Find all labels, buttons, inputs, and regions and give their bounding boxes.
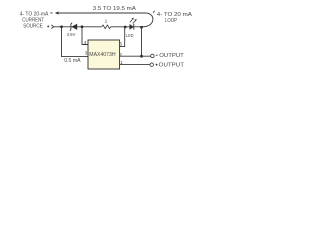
svg-text:OUTPUT: OUTPUT [159,53,184,59]
svg-text:LOOP: LOOP [165,18,178,24]
svg-text:1: 1 [105,19,108,25]
svg-text:1: 1 [120,60,123,66]
svg-text:OUTPUT: OUTPUT [159,63,184,69]
svg-text:5: 5 [120,41,123,47]
svg-text:4: 4 [84,40,87,46]
svg-text:3.9V: 3.9V [67,32,76,37]
svg-text:MAX4073H: MAX4073H [89,52,116,58]
svg-text:LED: LED [126,33,134,39]
svg-text:SOURCE: SOURCE [23,23,43,29]
svg-text:3: 3 [85,50,88,56]
svg-text:2: 2 [119,52,122,58]
svg-text:0.5 mA: 0.5 mA [64,58,81,64]
svg-text:3.5 TO 19.5 mA: 3.5 TO 19.5 mA [93,6,137,12]
